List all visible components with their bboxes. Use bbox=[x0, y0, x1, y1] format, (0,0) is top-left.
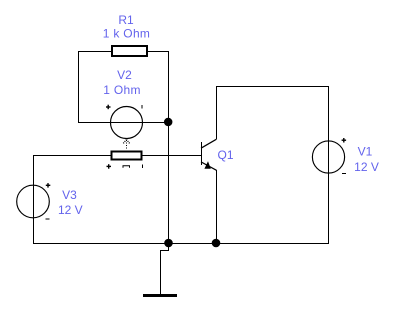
resistor R1 body bbox=[112, 46, 147, 56]
svg-text:12 V: 12 V bbox=[58, 203, 83, 217]
svg-text:Q1: Q1 bbox=[217, 148, 233, 162]
V2 plus mark bbox=[106, 105, 111, 110]
svg-text:1 k Ohm: 1 k Ohm bbox=[103, 27, 150, 41]
transistor Q1 base bar bbox=[201, 142, 203, 165]
transistor Q1 collector diagonal bbox=[201, 139, 217, 148]
ground jog horizontal bbox=[160, 250, 169, 252]
ground vertical bbox=[160, 250, 162, 295]
sense box plus mark bbox=[107, 164, 112, 169]
svg-text:R1: R1 bbox=[118, 13, 134, 27]
svg-text:V2: V2 bbox=[117, 68, 132, 82]
V3 plus mark bbox=[46, 183, 51, 188]
V1 minus dash bbox=[342, 172, 346, 174]
transistor Q1 emitter diagonal bbox=[201, 162, 217, 170]
svg-text:1 Ohm: 1 Ohm bbox=[103, 83, 141, 97]
wire bottom horizontal bbox=[33, 243, 329, 245]
wire emitter vertical bbox=[216, 170, 218, 244]
node junction dot at col168/row122 bbox=[164, 118, 173, 127]
wire left vertical of R1 loop bbox=[78, 51, 80, 123]
CCVS dotted control arrowhead bbox=[123, 140, 126, 144]
wire right vertical col 328 (through V1) bbox=[328, 86, 330, 244]
ground bar bbox=[143, 294, 177, 297]
V1 plus mark bbox=[342, 138, 347, 143]
voltage source V2 (CCVS output circle) bbox=[111, 107, 143, 139]
wire base row horizontal bbox=[33, 155, 201, 157]
sense box current marker bbox=[123, 166, 130, 168]
wire collector vertical bbox=[216, 86, 218, 139]
V3 minus dash bbox=[46, 218, 50, 220]
svg-text:V3: V3 bbox=[62, 188, 77, 202]
voltage source V3 circle bbox=[17, 185, 50, 218]
CCVS current-sense box of V2 bbox=[111, 151, 141, 159]
wire V2 row horizontal bbox=[78, 122, 169, 124]
wire left vertical col 33 (through V3) bbox=[33, 155, 35, 244]
CCVS dotted control arrow shaft bbox=[126, 140, 128, 150]
node junction dot at col216/row243 bbox=[212, 239, 221, 248]
wire top-left horizontal R1 row bbox=[78, 51, 169, 53]
sense box minus tick bbox=[142, 164, 144, 168]
ground stub from junction bbox=[168, 243, 170, 251]
wire right vertical col 168 bbox=[168, 51, 170, 244]
node junction dot at col168/row243 bbox=[164, 239, 173, 248]
wire top horizontal collector row bbox=[216, 86, 329, 88]
voltage source V1 circle bbox=[312, 141, 344, 173]
svg-text:12 V: 12 V bbox=[354, 160, 379, 174]
transistor Q1 emitter arrowhead bbox=[204, 161, 210, 169]
svg-text:V1: V1 bbox=[358, 145, 373, 159]
V2 minus tick bbox=[141, 105, 143, 109]
